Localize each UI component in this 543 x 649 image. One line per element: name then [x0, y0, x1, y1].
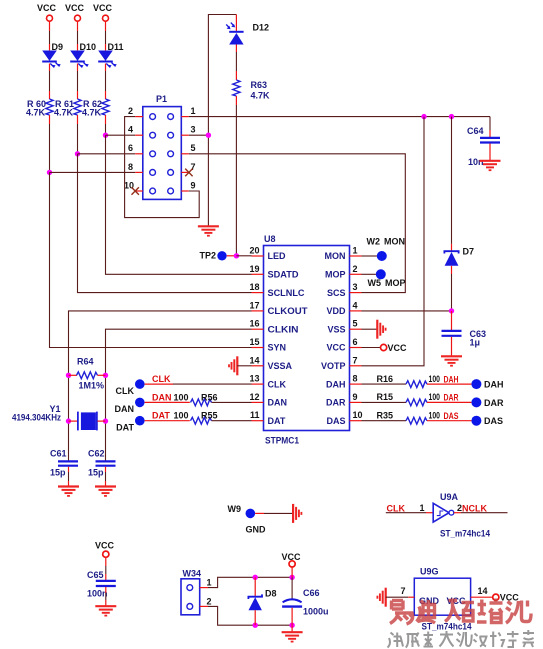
- svg-text:C62: C62: [88, 449, 105, 459]
- svg-text:DAS: DAS: [444, 411, 459, 421]
- power flag VCC (rail 1): [37, 3, 57, 21]
- svg-text:C61: C61: [50, 449, 67, 459]
- wire VCC to C65: [105, 557, 107, 580]
- svg-text:D8: D8: [265, 589, 277, 599]
- svg-text:W34: W34: [183, 569, 202, 579]
- power flag VCC at W34: [282, 552, 302, 577]
- pin 1 of P1: [181, 106, 195, 117]
- wire CLKOUT pin17 down left column: [69, 311, 252, 461]
- svg-text:4.7K: 4.7K: [82, 108, 102, 118]
- pin 15 of U8: [249, 337, 263, 348]
- wire D10 to R61: [77, 64, 79, 100]
- wire node to C63: [451, 311, 453, 330]
- resistor R55 100: [191, 411, 218, 425]
- pin 19 of U8: [249, 264, 263, 275]
- wire C62 to ground: [105, 467, 107, 487]
- svg-text:8: 8: [128, 162, 133, 172]
- svg-text:MOP: MOP: [325, 270, 346, 280]
- svg-text:100: 100: [429, 410, 441, 420]
- capacitor C65 100n: [87, 570, 116, 599]
- svg-text:4: 4: [128, 125, 133, 135]
- resistor R15 100: [362, 392, 441, 406]
- test point DAN: [115, 398, 190, 415]
- test point W5 MOP: [362, 269, 406, 288]
- node junction VDD/D7/C63: [449, 308, 454, 313]
- pin 10 of P1: [124, 180, 143, 191]
- wire R61 net down to SCLNLC: [78, 154, 252, 293]
- watermark gray character 9: [523, 630, 535, 647]
- capacitor C63 1u: [442, 329, 487, 348]
- svg-text:DAT: DAT: [152, 411, 170, 421]
- svg-text:DAN: DAN: [152, 392, 172, 402]
- resistor R64 1M 1%: [69, 357, 106, 391]
- svg-text:SYN: SYN: [268, 343, 287, 353]
- svg-text:DAR: DAR: [326, 398, 346, 408]
- svg-text:NCLK: NCLK: [462, 504, 487, 514]
- watermark gray character 4: [440, 631, 454, 647]
- resistor R60 4.7K: [26, 99, 53, 118]
- svg-text:W2: W2: [367, 237, 381, 247]
- svg-text:13: 13: [249, 374, 259, 384]
- pin 3 of P1: [181, 125, 195, 136]
- wire D12 to R63: [235, 45, 237, 81]
- pin 9 of P1: [181, 180, 195, 191]
- resistor R61 4.7K: [54, 99, 81, 118]
- svg-text:DAR: DAR: [444, 393, 459, 403]
- watermark gray character 5: [457, 632, 472, 647]
- wire R55 to pin11: [212, 420, 252, 422]
- wire VSS pin5 to ground: [362, 328, 378, 330]
- connector W34: [181, 569, 201, 615]
- wire R61 down to junction: [77, 115, 79, 154]
- svg-text:VSS: VSS: [327, 324, 345, 334]
- svg-text:DAR: DAR: [484, 398, 504, 408]
- svg-text:20: 20: [249, 246, 259, 256]
- node junction TP2/R63: [234, 253, 239, 258]
- pin 12 of U8: [249, 392, 263, 403]
- svg-text:R64: R64: [77, 357, 94, 367]
- svg-text:9: 9: [353, 392, 358, 402]
- svg-text:DAN: DAN: [268, 398, 288, 408]
- wire R35 to test point DAS: [427, 420, 471, 422]
- power flag VCC at C65: [95, 541, 115, 558]
- wire junction to P1 pin8: [50, 171, 136, 173]
- svg-text:D10: D10: [80, 42, 97, 52]
- svg-text:100: 100: [174, 392, 189, 402]
- wire D7 to VDD node: [451, 266, 453, 311]
- capacitor C61 15p: [50, 449, 78, 478]
- crystal Y1 4194.304KHz: [12, 404, 106, 431]
- pin 20 of U8: [249, 246, 263, 257]
- svg-text:4.7K: 4.7K: [251, 91, 271, 101]
- pin 17 of U8: [249, 300, 263, 311]
- ground at VSSA pin14: [229, 356, 252, 375]
- svg-text:DAS: DAS: [484, 416, 503, 426]
- svg-text:MON: MON: [384, 237, 405, 247]
- svg-text:R16: R16: [376, 374, 393, 384]
- node junction R64 right: [103, 373, 108, 378]
- svg-text:3: 3: [191, 125, 196, 135]
- wire VDD pin4 to C63 node: [362, 310, 452, 312]
- diode D7: [444, 247, 474, 266]
- svg-text:17: 17: [249, 300, 259, 310]
- svg-text:CLKOUT: CLKOUT: [268, 306, 309, 316]
- svg-text:7: 7: [400, 586, 405, 596]
- svg-text:U9A: U9A: [440, 492, 459, 502]
- svg-text:10n: 10n: [468, 157, 484, 167]
- svg-text:C66: C66: [303, 588, 320, 598]
- svg-text:STPMC1: STPMC1: [265, 436, 299, 446]
- svg-text:U9G: U9G: [420, 567, 439, 577]
- svg-text:1: 1: [353, 246, 358, 256]
- svg-text:D12: D12: [253, 23, 270, 33]
- test point DAH: [471, 379, 503, 390]
- svg-text:VDD: VDD: [326, 306, 346, 316]
- wire C65 to ground: [105, 587, 107, 606]
- diode D11 (LED): [98, 42, 123, 68]
- svg-text:14: 14: [478, 586, 488, 596]
- svg-text:DAH: DAH: [326, 379, 346, 389]
- svg-text:1μ: 1μ: [470, 338, 481, 348]
- svg-text:DAT: DAT: [116, 422, 134, 432]
- wire VCC3 to D11: [105, 21, 107, 50]
- svg-text:4: 4: [353, 300, 358, 310]
- svg-text:16: 16: [249, 319, 259, 329]
- test point W9: [228, 504, 293, 535]
- watermark gray character 1: [388, 633, 404, 648]
- wire R16 to test point DAH: [427, 383, 471, 385]
- svg-text:D9: D9: [52, 42, 64, 52]
- pin 2 of P1: [128, 106, 143, 117]
- test point DAT: [116, 416, 190, 432]
- svg-text:U8: U8: [264, 234, 276, 244]
- no-connect X on pin 7: [185, 169, 192, 177]
- watermark red character 5: [506, 601, 531, 624]
- pin 8 of P1: [128, 162, 143, 173]
- node junction top rail / VOTP riser: [421, 114, 426, 119]
- wire VCC1 to D9: [49, 21, 51, 50]
- pin 18 of U8: [249, 282, 263, 293]
- node junction R60/P1.8: [47, 170, 52, 175]
- test point CLK: [116, 379, 174, 395]
- svg-text:6: 6: [128, 143, 133, 153]
- svg-text:15p: 15p: [88, 468, 104, 478]
- svg-text:15: 15: [249, 337, 259, 347]
- wire D12 top to ground rail: [208, 15, 236, 227]
- capacitor C66 1000u (polarized): [282, 577, 328, 625]
- pin 4 of U8: [350, 300, 362, 311]
- svg-text:4.7K: 4.7K: [26, 108, 46, 118]
- svg-text:19: 19: [249, 264, 259, 274]
- svg-text:11: 11: [250, 410, 260, 420]
- photodiode D12: [226, 15, 269, 45]
- svg-text:GND: GND: [246, 525, 267, 535]
- pin 5 of P1: [181, 143, 195, 154]
- pin 3 of U8: [350, 282, 362, 293]
- svg-text:SDATD: SDATD: [268, 270, 299, 280]
- svg-text:15p: 15p: [50, 468, 66, 478]
- node junction D8 top: [253, 575, 258, 580]
- node junction R64 left: [66, 373, 71, 378]
- svg-text:VCC: VCC: [326, 343, 346, 353]
- wire P1 pin3 to ground net: [189, 134, 209, 136]
- svg-text:1M1%: 1M1%: [79, 381, 105, 391]
- wire D11 to R62: [105, 64, 107, 100]
- wire D9 to R60: [49, 64, 51, 100]
- svg-text:ST_m74hc14: ST_m74hc14: [422, 622, 472, 632]
- svg-text:5: 5: [191, 143, 196, 153]
- svg-text:R56: R56: [201, 392, 218, 402]
- svg-text:VCC: VCC: [388, 343, 408, 353]
- power flag VCC (rail 2): [65, 3, 85, 21]
- pin 16 of U8: [249, 319, 263, 330]
- pin 7 of P1: [181, 162, 195, 173]
- ground at W9: [293, 504, 301, 523]
- watermark red character 1: [390, 601, 414, 625]
- watermark red character 2: [417, 600, 436, 623]
- svg-text:R15: R15: [376, 392, 393, 402]
- svg-text:2: 2: [207, 596, 212, 606]
- wire R56 to pin12: [212, 401, 252, 403]
- ground below C66: [282, 632, 303, 641]
- svg-text:DAS: DAS: [326, 416, 345, 426]
- node junction D8 bottom: [253, 623, 258, 628]
- watermark red character 4: [477, 599, 503, 623]
- node junction R62/P1.4: [103, 133, 108, 138]
- wire W34 pin2 to bottom rail: [208, 606, 292, 625]
- ground below C64: [480, 161, 501, 170]
- svg-text:P1: P1: [156, 94, 167, 104]
- wire CLKIN pin16 down right column: [106, 329, 252, 461]
- svg-text:R63: R63: [251, 80, 268, 90]
- svg-text:CLK: CLK: [387, 504, 406, 514]
- svg-text:9: 9: [191, 180, 196, 190]
- svg-text:VSSA: VSSA: [268, 361, 293, 371]
- no-connect X on pin 10: [132, 187, 139, 195]
- svg-text:D7: D7: [463, 247, 475, 257]
- svg-text:CLK: CLK: [152, 374, 171, 384]
- wire TP2 to LED pin20: [236, 255, 251, 257]
- ground below C62: [95, 487, 116, 496]
- capacitor C64 10n: [467, 126, 500, 167]
- wire CLK to pin13: [173, 383, 252, 385]
- wire R62 net down to SDATD: [106, 135, 252, 274]
- svg-text:SCS: SCS: [327, 288, 346, 298]
- node junction Y1 right: [103, 418, 108, 423]
- wire VCC2 to D10: [77, 21, 79, 50]
- node junction top rail / D7 line: [449, 114, 454, 119]
- svg-text:12: 12: [249, 392, 259, 402]
- svg-text:R55: R55: [201, 411, 218, 421]
- wire top rail to D7: [451, 117, 453, 251]
- pin 14 of U9G to VCC: [471, 586, 520, 603]
- watermark gray character 6: [474, 634, 487, 647]
- svg-text:8: 8: [353, 374, 358, 384]
- wire R63 down to TP2 junction: [235, 96, 237, 255]
- svg-text:5: 5: [353, 319, 358, 329]
- watermark gray character 2: [406, 633, 419, 648]
- svg-text:10: 10: [353, 410, 363, 420]
- ground at VSS: [377, 320, 385, 339]
- inverter U9A: [386, 492, 508, 539]
- svg-text:CLK: CLK: [268, 379, 287, 389]
- wire W34 pin1 to top rail: [208, 577, 292, 587]
- resistor R62 4.7K: [82, 99, 109, 118]
- svg-text:CLK: CLK: [116, 386, 135, 396]
- pin 5 of U8: [350, 319, 362, 330]
- svg-text:1: 1: [419, 503, 424, 513]
- resistor R63 4.7K: [233, 80, 270, 101]
- ground at U9G pin7: [377, 588, 385, 607]
- svg-text:3: 3: [353, 282, 358, 292]
- svg-text:VOTP: VOTP: [321, 361, 346, 371]
- pin 1 of W34: [200, 578, 212, 588]
- svg-text:ST_m74hc14: ST_m74hc14: [440, 529, 490, 539]
- svg-text:TP2: TP2: [199, 251, 216, 261]
- wire C66 node to ground: [291, 625, 293, 632]
- svg-text:W9: W9: [228, 504, 242, 514]
- wire R62 down to junction: [105, 115, 107, 135]
- ground below C63: [441, 356, 462, 365]
- watermark gray character 3: [424, 632, 434, 647]
- svg-text:7: 7: [353, 355, 358, 365]
- diode D9 (LED): [42, 42, 63, 68]
- pin 6 of P1: [128, 143, 143, 154]
- svg-text:SCLNLC: SCLNLC: [268, 288, 306, 298]
- wire R60 down to junction: [49, 115, 51, 172]
- watermark red character 3: [445, 599, 474, 622]
- ground below C65: [95, 606, 116, 615]
- resistor R16 100: [362, 374, 441, 388]
- ground below C61: [58, 487, 79, 496]
- wire P1 pin1 net (top rail): [189, 116, 490, 118]
- pin 11 of U8: [250, 410, 264, 421]
- node junction Y1 left: [66, 418, 71, 423]
- svg-text:D11: D11: [108, 42, 124, 52]
- pin 4 of P1: [128, 125, 143, 136]
- power flag VCC at pin6: [362, 343, 408, 353]
- wire P1 pin2 to pin9 loop: [125, 117, 200, 218]
- node junction P1.3/ground line: [206, 133, 211, 138]
- svg-text:MON: MON: [325, 251, 346, 261]
- pin 6 of U8: [350, 337, 362, 348]
- connector P1: [143, 94, 182, 199]
- svg-text:2: 2: [353, 264, 358, 274]
- svg-text:100: 100: [174, 411, 189, 421]
- capacitor C62 15p: [88, 449, 116, 478]
- wire junction to P1 pin6: [78, 153, 136, 155]
- node junction R61/P1.6: [75, 151, 80, 156]
- power flag VCC (rail 3): [93, 3, 113, 21]
- svg-text:4.7K: 4.7K: [54, 108, 74, 118]
- svg-text:100: 100: [429, 374, 441, 384]
- svg-text:1: 1: [207, 578, 212, 588]
- pin 2 of W34: [200, 596, 212, 606]
- svg-text:VCC: VCC: [65, 3, 85, 13]
- svg-text:1000u: 1000u: [303, 607, 329, 617]
- svg-text:DAN: DAN: [115, 404, 135, 414]
- svg-text:14: 14: [249, 355, 259, 365]
- gate U9G power part: [414, 567, 471, 632]
- pin 8 of U8: [350, 374, 362, 385]
- svg-text:DAH: DAH: [444, 374, 459, 384]
- test point DAS: [471, 416, 503, 427]
- svg-text:DAT: DAT: [268, 416, 286, 426]
- resistor R56 100: [191, 392, 218, 406]
- wire P1 pin5 to SCS: [189, 154, 405, 293]
- wire top rail down to C64: [489, 117, 491, 137]
- svg-text:DAH: DAH: [484, 380, 504, 390]
- pin 7 of U8: [350, 355, 362, 366]
- svg-text:VCC: VCC: [93, 3, 113, 13]
- pin 2 of U8: [350, 264, 362, 275]
- svg-text:4194.304KHz: 4194.304KHz: [12, 413, 61, 423]
- wire C64 to ground: [489, 144, 491, 161]
- svg-text:2: 2: [128, 106, 133, 116]
- wire junction to P1 pin4: [106, 134, 136, 136]
- op-amp U8 STPMC1 body: [264, 234, 350, 446]
- pin 10 of U8: [350, 410, 363, 421]
- svg-text:VCC: VCC: [95, 541, 115, 551]
- wire R60 net down to SYN: [50, 172, 252, 347]
- pin 1 of U8: [350, 246, 362, 257]
- wire C63 to ground: [451, 337, 453, 356]
- ground below P1: [198, 226, 219, 235]
- wire R15 to test point DAR: [427, 401, 471, 403]
- svg-text:100n: 100n: [87, 589, 108, 599]
- svg-text:100: 100: [429, 392, 441, 402]
- diode D8 (zener): [248, 577, 276, 625]
- test point DAR: [471, 397, 504, 408]
- svg-text:R35: R35: [376, 410, 393, 420]
- pin 9 of U8: [350, 392, 362, 403]
- node junction C66 bottom: [289, 623, 294, 628]
- node junction C66 top: [289, 575, 294, 580]
- svg-text:LED: LED: [268, 251, 287, 261]
- wire VOTP pin7 riser: [362, 117, 425, 366]
- svg-text:VCC: VCC: [37, 3, 57, 13]
- pin 14 of U8: [249, 355, 263, 366]
- svg-text:MOP: MOP: [385, 278, 406, 288]
- pin 13 of U8: [249, 374, 263, 385]
- svg-text:C65: C65: [87, 570, 104, 580]
- watermark gray character 8: [507, 631, 519, 647]
- svg-text:1: 1: [191, 106, 196, 116]
- wire C61 to ground: [68, 467, 70, 487]
- diode D10 (LED): [70, 42, 96, 68]
- watermark gray character 7: [490, 632, 504, 648]
- svg-text:W5: W5: [368, 278, 382, 288]
- svg-text:CLKIN: CLKIN: [268, 324, 299, 334]
- svg-text:C64: C64: [467, 126, 484, 136]
- svg-text:6: 6: [353, 337, 358, 347]
- test point TP2: [199, 251, 236, 261]
- resistor R35 100: [362, 410, 441, 424]
- svg-text:18: 18: [249, 282, 259, 292]
- wire ground to pin7: [386, 586, 415, 597]
- test point W2 MON: [362, 237, 406, 262]
